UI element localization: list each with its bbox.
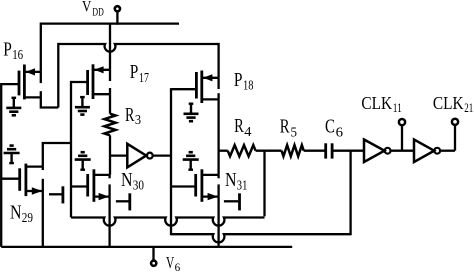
svg-text:P: P (234, 69, 243, 91)
terminal V6 stem (152, 247, 154, 261)
wire B feedback with hop (171, 234, 351, 242)
wire P16 drain step (41, 97, 59, 107)
wire rail2 with hop (58, 44, 218, 52)
wire inverter output (153, 154, 172, 156)
label R5 (280, 115, 297, 140)
bulk contact N31 (224, 193, 240, 210)
wire far-left vertical (0, 83, 2, 247)
label P18 (234, 69, 254, 94)
wire P17 drain down (109, 94, 111, 114)
wire bus P18gate-invout-N31gate (170, 88, 172, 235)
label CLK11 (361, 93, 402, 115)
wire to R4 (219, 150, 228, 152)
wire N30 source down (108, 197, 110, 247)
capacitor C6 (326, 143, 332, 158)
node R4-R5 junction down (263, 151, 265, 217)
svg-text:P: P (3, 38, 12, 60)
transistor P16 (1, 65, 41, 100)
label R3 (125, 104, 141, 128)
terminal V6 circle (151, 261, 156, 266)
inverter U1 triangle (127, 144, 146, 168)
svg-text:6: 6 (336, 126, 343, 141)
svg-text:3: 3 (135, 113, 141, 128)
label C6 (325, 115, 343, 140)
wire A bulk bus with hops (71, 218, 265, 226)
transistor P17 (71, 64, 110, 99)
svg-text:R: R (234, 115, 244, 137)
ground symbol at P18 (184, 103, 199, 122)
inverter U2 triangle (364, 140, 385, 163)
label P16 (3, 38, 23, 62)
wire CLK21 stem (454, 125, 456, 151)
transistor P18 (171, 71, 219, 104)
inverted ground symbol at N29 (4, 146, 20, 165)
svg-text:N: N (121, 169, 133, 191)
inverter U1 bubble (147, 153, 153, 159)
svg-text:DD: DD (92, 7, 103, 19)
wire VDD stem (116, 11, 118, 25)
power terminal VDD circle (115, 6, 120, 11)
svg-text:30: 30 (133, 178, 144, 193)
terminal CLK21 circle (452, 119, 458, 125)
svg-text:11: 11 (393, 100, 402, 115)
resistor R3 (104, 114, 115, 136)
svg-text:V: V (166, 253, 174, 272)
inverter U3 triangle (414, 140, 434, 163)
svg-text:29: 29 (22, 211, 33, 226)
label P17 (130, 61, 149, 86)
svg-text:C: C (325, 115, 335, 137)
wire inverter input (110, 154, 127, 156)
wire N29 source down (42, 191, 44, 247)
wire rail2 left down (57, 43, 59, 108)
wire U3 output (440, 150, 455, 152)
transistor N30 (71, 169, 110, 202)
wire N29 drain to gate bus (43, 143, 71, 167)
label CLK21 (433, 93, 473, 115)
label N31 (225, 169, 247, 193)
svg-text:P: P (130, 61, 139, 83)
svg-text:5: 5 (291, 126, 298, 141)
wire bottom rail (1, 246, 292, 248)
resistor R4 (228, 145, 256, 156)
svg-text:R: R (125, 104, 135, 126)
transistor N29 (1, 164, 43, 197)
bulk contact N29 (49, 186, 63, 203)
svg-text:18: 18 (243, 78, 254, 93)
inverted ground symbol at N30 (75, 152, 91, 171)
svg-text:4: 4 (244, 125, 251, 140)
wire B up to C6 node (349, 151, 351, 236)
terminal CLK11 circle (399, 119, 405, 125)
ground symbol at P16 (6, 97, 21, 116)
wire U2 output (391, 150, 415, 152)
svg-text:31: 31 (237, 178, 248, 193)
wire N31 drain up (217, 99, 219, 174)
label R4 (234, 115, 251, 140)
inverter U3 bubble (434, 148, 440, 154)
wire gate bus P17-N30 (70, 81, 72, 218)
wire rail1 VDD (41, 22, 179, 24)
svg-text:6: 6 (175, 262, 181, 274)
wire P17 source up (109, 23, 111, 70)
transistor N31 (171, 169, 219, 202)
wire R5 to C6 (304, 150, 325, 152)
wire N31 source down (217, 197, 219, 247)
svg-text:N: N (225, 169, 237, 191)
inverter U2 bubble (385, 148, 391, 154)
label VDD (82, 0, 104, 19)
ground symbol at P17 (75, 96, 90, 115)
wire P16 source up (40, 23, 42, 72)
svg-text:CLK: CLK (361, 93, 392, 113)
svg-text:N: N (10, 202, 22, 224)
label N30 (121, 169, 144, 193)
wire C6 to inverter U2 (333, 150, 364, 152)
wire CLK11 stem (401, 125, 403, 151)
inverted ground symbol at N31 (183, 152, 199, 171)
bulk contact N30 (116, 193, 130, 210)
svg-text:V: V (82, 0, 92, 15)
wire R3 to N30 drain (109, 135, 111, 175)
label V6 (166, 253, 180, 274)
svg-text:16: 16 (12, 48, 23, 63)
svg-text:21: 21 (464, 100, 473, 115)
wire rail2 right down to P18 (217, 43, 219, 78)
label N29 (10, 202, 33, 226)
svg-text:17: 17 (139, 71, 149, 86)
svg-text:R: R (280, 115, 290, 137)
resistor R5 (282, 145, 304, 156)
svg-text:CLK: CLK (433, 93, 464, 113)
wire R4 to R5 (256, 150, 282, 152)
